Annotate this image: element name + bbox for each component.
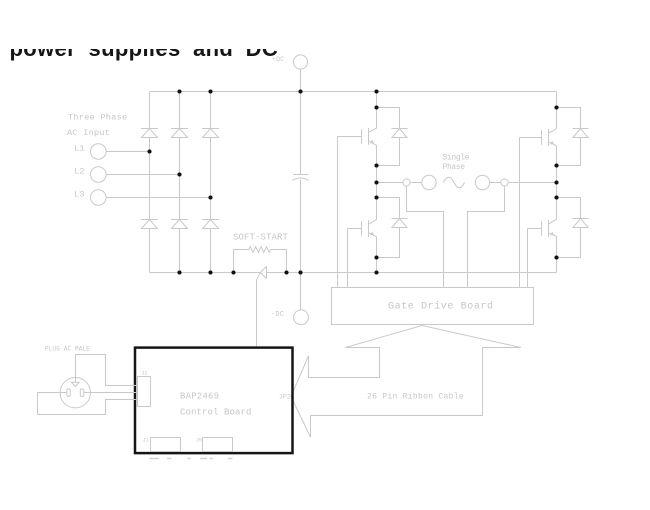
rectifier diode D5 (bottom, column 2) xyxy=(171,220,188,229)
soft-start bypass loop with resistor xyxy=(234,247,287,273)
wire bottom bus to -DC circle xyxy=(300,273,302,310)
junction dot right leg diode4 bottom xyxy=(554,255,558,259)
svg-text:+DC: +DC xyxy=(272,56,284,63)
junction dot soft-start right xyxy=(284,270,288,274)
wire medium to small terminal right xyxy=(490,182,501,184)
+DC terminal circle xyxy=(293,55,307,69)
connector J2 xyxy=(138,377,151,407)
junction dot left leg diode2 bottom xyxy=(374,255,378,259)
junction dot left leg diode2 top xyxy=(374,195,378,199)
IGBT Q1 emitter arrow xyxy=(370,140,374,144)
svg-text:PLUG AC MALE: PLUG AC MALE xyxy=(45,346,90,353)
AC plug face circle xyxy=(60,378,90,408)
left leg wire xyxy=(376,92,378,273)
svg-text:BAP2469: BAP2469 xyxy=(180,392,219,402)
junction dot left leg / bottom bus xyxy=(374,270,378,274)
svg-text:L1: L1 xyxy=(74,144,85,154)
bottom DC bus xyxy=(150,272,557,274)
medium output circle left xyxy=(422,175,436,189)
white band clipping top of title xyxy=(0,0,650,49)
wire L3 to bridge column 3 xyxy=(106,197,210,199)
plug blade slot right xyxy=(80,389,84,396)
terminal circle L3 xyxy=(91,190,107,206)
bridge column 2 wire xyxy=(179,92,181,273)
-DC terminal circle xyxy=(294,310,309,325)
svg-text:Gate Drive Board: Gate Drive Board xyxy=(388,301,494,313)
junction dot soft-start left xyxy=(231,270,235,274)
medium output circle right xyxy=(475,175,489,189)
svg-text:J2: J2 xyxy=(142,371,148,377)
clipped caption fragments below control board xyxy=(149,458,232,460)
control board box xyxy=(135,348,293,454)
rectifier diode D2 (top, column 2) xyxy=(171,129,188,138)
gate wire Q3 to gate drive board xyxy=(519,138,521,288)
plug blade slot left xyxy=(67,389,71,396)
right leg wire xyxy=(556,92,558,273)
SCR in bus (soft-start contact, pointing left) xyxy=(260,266,266,278)
output wire small terminal to right leg xyxy=(508,182,556,184)
junction dot L3/column3 xyxy=(208,195,212,199)
rectifier diode D4 (bottom, column 1) xyxy=(141,220,158,229)
svg-text:Single: Single xyxy=(443,154,470,163)
junction dot column3 / top bus xyxy=(208,89,212,93)
freewheel diode DQ3 (top-right) xyxy=(557,108,589,166)
gate drive board box xyxy=(332,288,534,325)
plug wire top to J2 pin 1 xyxy=(76,355,138,386)
wire +DC circle to top bus xyxy=(300,69,302,91)
rectifier diode D1 (top, column 1) xyxy=(141,129,158,138)
IGBT Q3 (top-right) xyxy=(520,129,557,146)
svg-text:Three Phase: Three Phase xyxy=(68,113,127,123)
svg-text:J1: J1 xyxy=(143,438,149,444)
bridge column 3 wire xyxy=(210,92,212,273)
plug ground pin xyxy=(72,382,80,386)
gate wire Q2 to gate drive board xyxy=(347,229,349,288)
freewheel diode DQ2 (bottom-left) xyxy=(377,198,408,258)
output sense wire right down to gate drive board xyxy=(468,186,505,287)
svg-text:L2: L2 xyxy=(74,167,85,177)
IGBT Q2 emitter arrow xyxy=(370,232,374,236)
gate wire Q1 to gate drive board xyxy=(337,137,339,288)
junction dot column3 / bottom bus xyxy=(208,270,212,274)
wire small to medium terminal left xyxy=(410,182,422,184)
svg-text:-DC: -DC xyxy=(271,311,284,319)
connector J5 xyxy=(203,438,233,452)
junction dot right leg output xyxy=(554,180,558,184)
svg-text:L3: L3 xyxy=(74,190,85,200)
wire L1 to bridge column 1 xyxy=(106,151,149,153)
output sense wire left down to gate drive board xyxy=(407,186,444,287)
freewheel diode DQ4 (bottom-right) xyxy=(557,198,589,258)
junction dot +DC on top bus xyxy=(298,89,302,93)
junction dot cap column / bottom bus xyxy=(298,270,302,274)
plug wire right blade to J2 pin 2 xyxy=(84,392,138,394)
terminal circle L1 xyxy=(91,144,107,160)
wire L2 to bridge column 2 xyxy=(106,174,179,176)
top DC bus xyxy=(150,91,557,93)
output wire left leg to small terminal xyxy=(377,182,404,184)
junction dot column2 / top bus xyxy=(177,89,181,93)
IGBT Q4 (bottom-right) xyxy=(528,219,557,237)
IGBT Q3 emitter arrow xyxy=(550,141,554,145)
26-pin ribbon cable arrow xyxy=(291,326,521,438)
junction dot L2/column2 xyxy=(177,172,181,176)
svg-text:J5: J5 xyxy=(196,438,202,444)
capacitor column wire xyxy=(300,92,302,273)
bridge column 1 wire xyxy=(149,92,151,273)
junction dot left leg emitter/diode1 bottom xyxy=(374,163,378,167)
svg-text:26 Pin Ribbon Cable: 26 Pin Ribbon Cable xyxy=(367,392,464,401)
junction dot right leg emitter/diode3 bottom xyxy=(554,163,558,167)
small output terminal right xyxy=(501,179,508,186)
plug wire left blade loop to J2 pin 3 xyxy=(38,393,138,415)
IGBT Q2 (bottom-left) xyxy=(348,220,377,237)
junction dot left leg output xyxy=(374,180,378,184)
junction dot right leg diode4 top xyxy=(554,195,558,199)
junction dot left leg diode1 top xyxy=(374,105,378,109)
rectifier diode D3 (top, column 3) xyxy=(202,129,219,138)
SCR gate wire down to control board xyxy=(257,273,261,347)
svg-text:AC Input: AC Input xyxy=(67,128,110,138)
svg-text:SOFT-START: SOFT-START xyxy=(233,233,289,243)
connector J1 xyxy=(151,438,181,452)
gate wire Q4 to gate drive board xyxy=(527,229,529,288)
terminal circle L2 xyxy=(91,167,107,183)
svg-text:Phase: Phase xyxy=(443,163,466,172)
AC sine squiggle xyxy=(444,177,465,188)
svg-text:Control Board: Control Board xyxy=(180,407,252,417)
small output terminal left xyxy=(403,179,410,186)
junction dot column2 / bottom bus xyxy=(177,270,181,274)
svg-text:JP2: JP2 xyxy=(279,394,291,401)
junction dot L1/column1 xyxy=(147,149,151,153)
junction dot left leg / top bus xyxy=(374,89,378,93)
capacitor C1 top plate xyxy=(293,174,309,176)
IGBT Q4 emitter arrow xyxy=(550,232,554,236)
rectifier diode D6 (bottom, column 3) xyxy=(202,220,219,229)
capacitor C1 bottom plate (curved) xyxy=(293,178,309,180)
freewheel diode DQ1 (top-left) xyxy=(377,108,408,166)
junction dot right leg diode3 top xyxy=(554,105,558,109)
IGBT Q1 (top-left) xyxy=(338,128,377,145)
